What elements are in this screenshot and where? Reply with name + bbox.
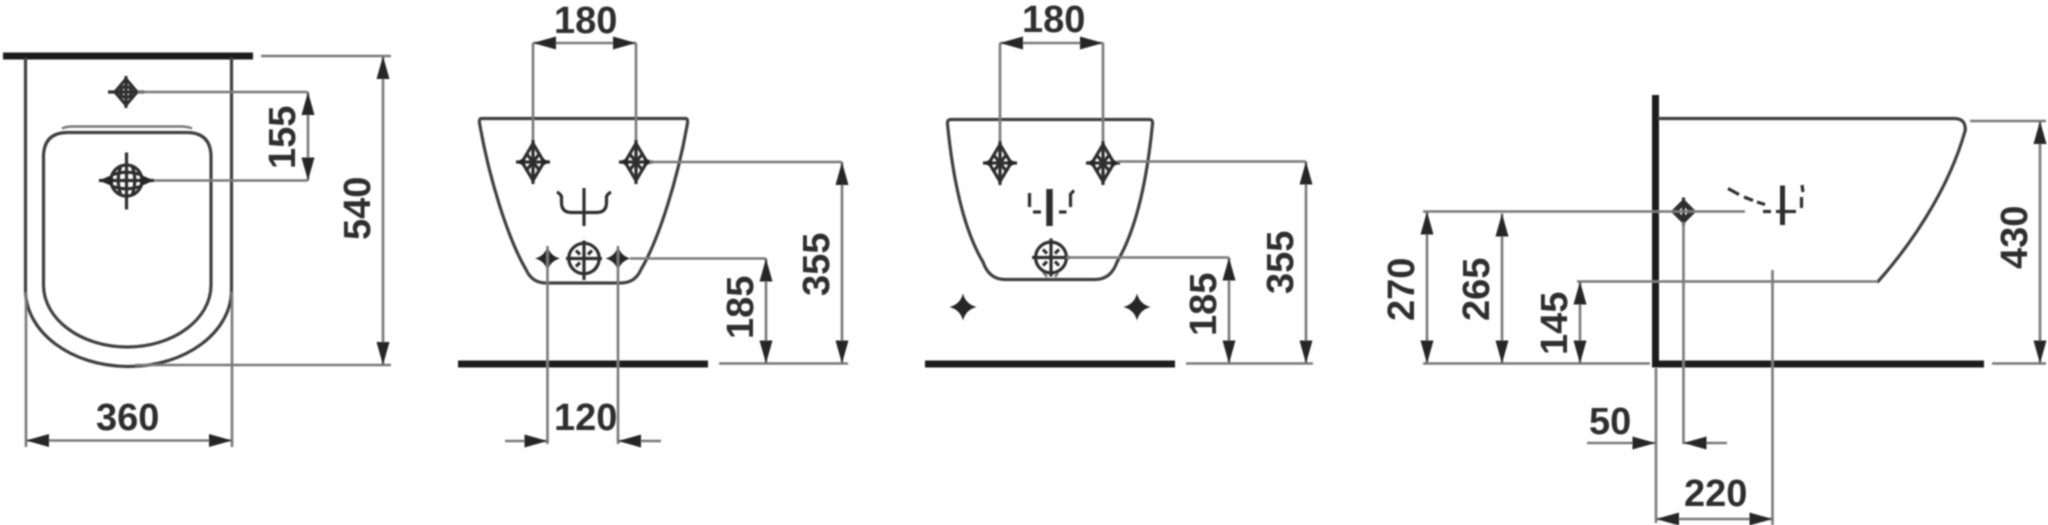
dimension 50 arrows xyxy=(1633,437,1656,450)
floor line (thick) xyxy=(1652,361,1984,368)
floor extension line xyxy=(719,362,848,365)
extension line below drain right xyxy=(617,246,620,444)
dimension 430 line xyxy=(2039,121,2042,364)
svg-text:270: 270 xyxy=(1381,258,1423,321)
dimension 270 arrows xyxy=(1421,212,1434,235)
bidet body outline xyxy=(947,120,1152,280)
supply height leader line xyxy=(1423,210,1745,213)
VIEW3 rear view of wall-hung bidet xyxy=(925,0,1313,364)
svg-text:155: 155 xyxy=(262,106,304,169)
leader line from fixing holes to 355 xyxy=(1117,160,1306,163)
dimension 120 line right xyxy=(618,440,661,443)
VIEW1 top view of bidet xyxy=(3,56,391,447)
dimension 220 line xyxy=(1656,518,1773,521)
svg-text:185: 185 xyxy=(1183,273,1225,336)
bidet underside line with 145 extension xyxy=(1577,280,1878,283)
dimension 185 arrows xyxy=(1223,258,1236,281)
bidet outer outline right side xyxy=(230,59,233,290)
dimension 155 line xyxy=(307,92,310,181)
dimension 180 left extension xyxy=(532,43,535,140)
dimension 430 arrows xyxy=(2034,121,2047,144)
leader line from top fixing hole xyxy=(138,91,308,94)
fixing hole symbol top (small) xyxy=(108,76,144,108)
dimension 360 left extension xyxy=(25,292,28,447)
dimension 360 line xyxy=(26,439,232,442)
svg-text:360: 360 xyxy=(96,397,159,439)
dimension 540 line xyxy=(382,56,385,365)
tap hole marker (hidden, dashed) xyxy=(1728,185,1803,225)
dimension 355 line xyxy=(1305,162,1308,364)
dimension 50 line right xyxy=(1684,442,1728,445)
dimension 270 line xyxy=(1426,212,1429,364)
fixing hole symbol right xyxy=(619,140,653,184)
wall line (thick vertical) xyxy=(1652,95,1659,368)
floor fixing star right xyxy=(1124,294,1151,321)
dimension 430 top extension xyxy=(1970,120,2046,123)
dimension 120 line left xyxy=(505,440,548,443)
dimension 265 arrows xyxy=(1496,214,1509,237)
leader line from drain to 185 xyxy=(630,257,766,260)
dimension 540 bottom extension xyxy=(135,364,391,367)
dimension 220 arrows xyxy=(1656,513,1679,525)
dimension 180 right extension xyxy=(1102,43,1105,141)
water supply symbol xyxy=(1673,198,1694,226)
dimension 355 line xyxy=(841,162,844,364)
fixing hole symbol left xyxy=(516,140,550,184)
bidet outer outline left side xyxy=(24,59,27,290)
wall line (thick) xyxy=(3,53,253,60)
fixing hole symbol right xyxy=(1086,141,1120,185)
dimension 355 arrows xyxy=(1300,162,1313,185)
dimension 540 arrows xyxy=(377,56,390,79)
svg-text:180: 180 xyxy=(1022,0,1085,41)
bowl rim back double line xyxy=(62,127,192,129)
dimension 180 arrows xyxy=(533,37,556,50)
dimension 155 arrows xyxy=(302,92,315,115)
bidet body outline xyxy=(479,119,687,284)
floor extension line xyxy=(1186,362,1313,365)
leader line from drain to 185 xyxy=(1066,256,1229,259)
wall extension below floor xyxy=(1655,368,1658,523)
svg-text:185: 185 xyxy=(720,276,762,339)
svg-text:50: 50 xyxy=(1589,401,1631,443)
svg-text:540: 540 xyxy=(337,177,379,240)
fixing hole symbol left xyxy=(983,141,1017,185)
svg-text:430: 430 xyxy=(1994,206,2036,269)
dimension 185 line xyxy=(765,259,768,364)
VIEW4 side view of wall-hung bidet xyxy=(1381,95,2047,525)
floor line (thick) xyxy=(925,361,1175,368)
bidet outer outline bottom arc xyxy=(26,290,232,367)
dimension 50 line left xyxy=(1587,442,1656,445)
dimension 180 line xyxy=(1000,42,1103,45)
dimension 185 line xyxy=(1228,258,1231,364)
inner bowl outline xyxy=(44,133,212,348)
VIEW2 front view of wall-hung bidet xyxy=(458,0,849,448)
drain extension vertical xyxy=(1771,270,1774,525)
tap hole marker xyxy=(557,188,611,226)
dimension 180 right extension xyxy=(635,43,638,140)
dimension 180 arrows xyxy=(1000,37,1023,50)
waste fixing star right xyxy=(606,246,631,271)
svg-text:265: 265 xyxy=(1456,258,1498,321)
supply extension below symbol xyxy=(1682,222,1685,444)
drain tick on bottom edge xyxy=(1043,272,1058,277)
dimension 360 right extension xyxy=(231,292,234,447)
dimension 265 line xyxy=(1501,214,1504,364)
dimension 145 arrows xyxy=(1574,282,1587,305)
tap hole marker (hidden, dashed) xyxy=(1030,189,1075,226)
drain symbol xyxy=(566,241,602,281)
waste fixing star left xyxy=(535,246,560,271)
dimension 540 top extension xyxy=(261,55,391,58)
dimension 185 arrows xyxy=(760,259,773,282)
svg-text:355: 355 xyxy=(1260,231,1302,294)
svg-text:355: 355 xyxy=(796,233,838,296)
dimension 145 line xyxy=(1579,282,1582,364)
svg-text:180: 180 xyxy=(554,0,617,42)
extension line below drain left xyxy=(546,246,549,444)
dimension 355 arrows xyxy=(836,162,849,185)
dimension 430 bottom extension xyxy=(1992,362,2046,365)
bidet body top edge xyxy=(1659,119,1965,131)
bidet body front curve xyxy=(1878,131,1965,282)
floor line (thick) xyxy=(458,361,708,368)
leader line from water inlet xyxy=(154,179,308,182)
dimension 360 arrows xyxy=(26,434,49,447)
floor fixing star left xyxy=(950,294,977,321)
svg-text:145: 145 xyxy=(1534,292,1576,355)
dimension 180 line xyxy=(533,42,636,45)
drain symbol (hidden) xyxy=(1032,239,1070,277)
dimension 120 arrows xyxy=(525,435,548,448)
leader line from fixing holes to 355 xyxy=(650,161,842,164)
floor level extension left xyxy=(1423,362,1650,365)
svg-text:220: 220 xyxy=(1684,473,1747,515)
water inlet symbol centre (large) xyxy=(99,153,154,210)
dimension 180 left extension xyxy=(999,43,1002,141)
svg-text:120: 120 xyxy=(554,397,617,439)
